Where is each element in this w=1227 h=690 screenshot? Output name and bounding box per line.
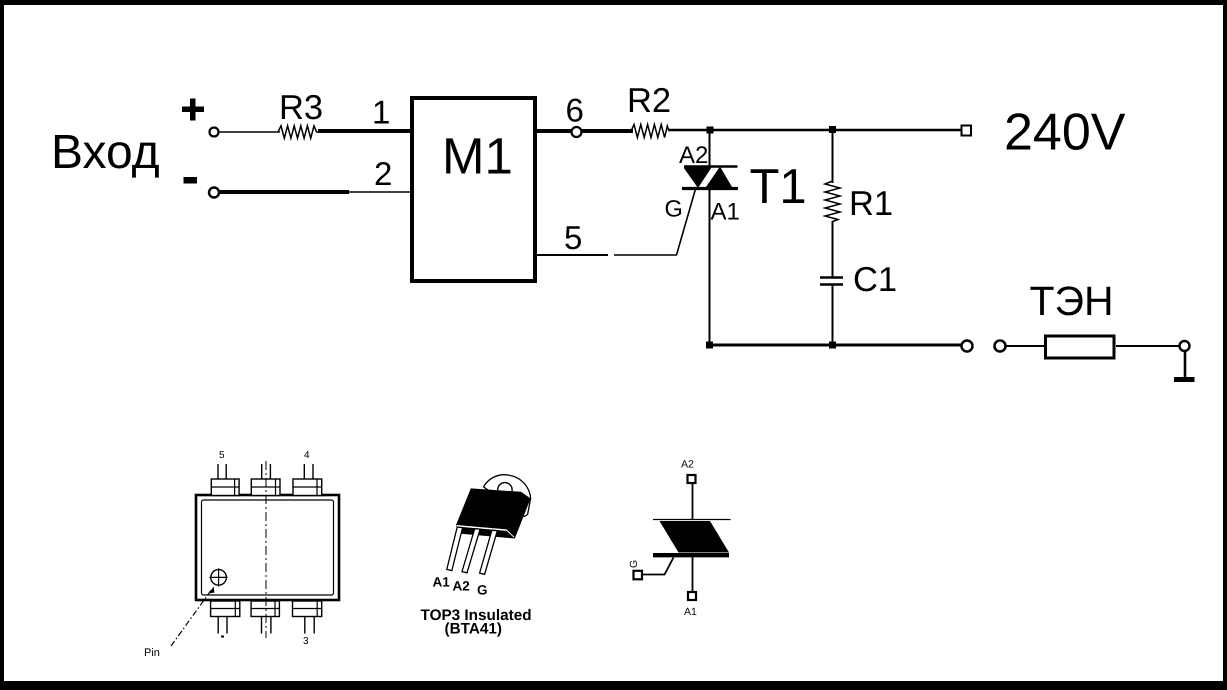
DIP package M1 outline bbox=[196, 495, 339, 600]
wire triac A1 down bbox=[709, 188, 711, 346]
terminal pin 6 bbox=[572, 127, 582, 137]
wire heater to ground bbox=[1116, 345, 1180, 347]
svg-text:R1: R1 bbox=[849, 185, 893, 223]
wire to ground bbox=[1184, 351, 1187, 378]
svg-text:A2: A2 bbox=[453, 579, 470, 594]
terminal TEN left bbox=[995, 341, 1006, 352]
capacitor C1 bbox=[820, 278, 843, 285]
leader line to pin1 marker bbox=[171, 587, 215, 647]
wire R2 to 240V terminal bbox=[668, 129, 962, 132]
svg-text:1: 1 bbox=[372, 94, 390, 131]
DIP pin top-left (pin 6) bbox=[211, 464, 239, 496]
svg-text:G: G bbox=[665, 196, 683, 222]
terminal ground bbox=[1180, 341, 1190, 351]
wire bottom rail bbox=[710, 344, 962, 347]
svg-text:5: 5 bbox=[219, 450, 225, 461]
svg-text:5: 5 bbox=[564, 219, 582, 256]
plus terminal label bbox=[182, 99, 204, 121]
svg-text:R2: R2 bbox=[627, 82, 671, 120]
TOP3 body bbox=[456, 488, 531, 538]
triac symbol terminal A2 bbox=[688, 475, 696, 483]
junction bottom right bbox=[829, 342, 836, 349]
minus terminal label bbox=[184, 177, 198, 184]
junction node at R1 top bbox=[829, 126, 836, 133]
triac symbol top line bbox=[653, 519, 731, 521]
svg-text:G: G bbox=[477, 583, 488, 598]
wire R1 to C1 bbox=[832, 221, 834, 277]
wire to heater bbox=[1006, 345, 1045, 347]
TOP3 lead G bbox=[480, 530, 498, 574]
TOP3 body edge highlight bbox=[456, 526, 514, 538]
svg-text:A2: A2 bbox=[679, 142, 708, 169]
wire gate diagonal bbox=[677, 189, 696, 255]
DIP pin bottom-left (pin 1) bbox=[211, 601, 240, 634]
svg-text:3: 3 bbox=[303, 636, 309, 647]
resistor R2 bbox=[631, 125, 669, 138]
terminal 240V bbox=[962, 126, 972, 136]
resistor R3 bbox=[278, 126, 319, 138]
triac symbol gate wire bbox=[643, 558, 674, 575]
wire minus to M1 pin 2 bbox=[220, 190, 411, 194]
DIP pin number 1 mark bbox=[221, 636, 224, 638]
junction node at triac A2 bbox=[707, 127, 714, 134]
svg-text:A1: A1 bbox=[433, 575, 451, 590]
svg-text:Pin: Pin bbox=[144, 647, 160, 659]
svg-text:2: 2 bbox=[374, 155, 392, 192]
svg-text:240V: 240V bbox=[1004, 104, 1126, 162]
svg-text:6: 6 bbox=[566, 92, 584, 129]
TOP3 package tab bbox=[484, 475, 531, 517]
wire C1 down bbox=[832, 285, 834, 346]
DIP pin bottom-middle (pin 2) bbox=[251, 601, 279, 634]
svg-text:A1: A1 bbox=[684, 606, 697, 618]
terminal minus bbox=[209, 188, 219, 198]
ground bbox=[1174, 377, 1195, 382]
DIP pin top-right (pin 4) bbox=[293, 464, 322, 496]
triac symbol wire A2 bbox=[692, 483, 694, 520]
svg-text:A2: A2 bbox=[681, 459, 694, 471]
module M1 bbox=[412, 98, 535, 281]
triac symbol terminal G bbox=[634, 571, 643, 580]
svg-text:R3: R3 bbox=[279, 89, 323, 127]
triac symbol bottom line bbox=[653, 553, 729, 557]
svg-text:T1: T1 bbox=[750, 160, 807, 214]
svg-text:ТЭН: ТЭН bbox=[1030, 278, 1114, 324]
wire R1 top bbox=[832, 130, 834, 183]
svg-text:G: G bbox=[628, 560, 640, 568]
TOP3 lead A2 bbox=[462, 529, 480, 573]
terminal plus bbox=[210, 128, 219, 137]
triac symbol body bbox=[660, 521, 730, 553]
svg-text:(BTA41): (BTA41) bbox=[445, 621, 503, 638]
svg-text:4: 4 bbox=[304, 450, 310, 461]
heater element TEN bbox=[1046, 336, 1115, 358]
DIP pin top-middle bbox=[251, 464, 280, 496]
wire plus to R3 bbox=[219, 131, 280, 133]
DIP pin1 marker bbox=[210, 568, 228, 586]
wire pin6 to R2 bbox=[582, 129, 633, 133]
DIP pin bottom-right (pin 3) bbox=[293, 601, 322, 634]
wire M1 pin 6 bbox=[537, 129, 571, 133]
DIP centerline bbox=[265, 461, 267, 638]
svg-text:C1: C1 bbox=[853, 261, 897, 299]
triac T1 bbox=[682, 167, 738, 189]
terminal bottom rail bbox=[962, 341, 973, 352]
triac symbol terminal A1 bbox=[688, 592, 696, 600]
triac symbol wire A1 bbox=[692, 555, 694, 592]
wire M1 pin 5 bbox=[537, 254, 677, 256]
junction bottom left bbox=[706, 342, 713, 349]
resistor R1 bbox=[825, 181, 840, 222]
svg-text:M1: M1 bbox=[442, 128, 513, 185]
wire junction to triac bbox=[709, 130, 711, 167]
wire R3 to M1 pin 1 bbox=[318, 129, 411, 133]
svg-text:Вход: Вход bbox=[51, 126, 160, 179]
TOP3 lead A1 bbox=[447, 527, 463, 571]
svg-text:A1: A1 bbox=[711, 199, 740, 226]
